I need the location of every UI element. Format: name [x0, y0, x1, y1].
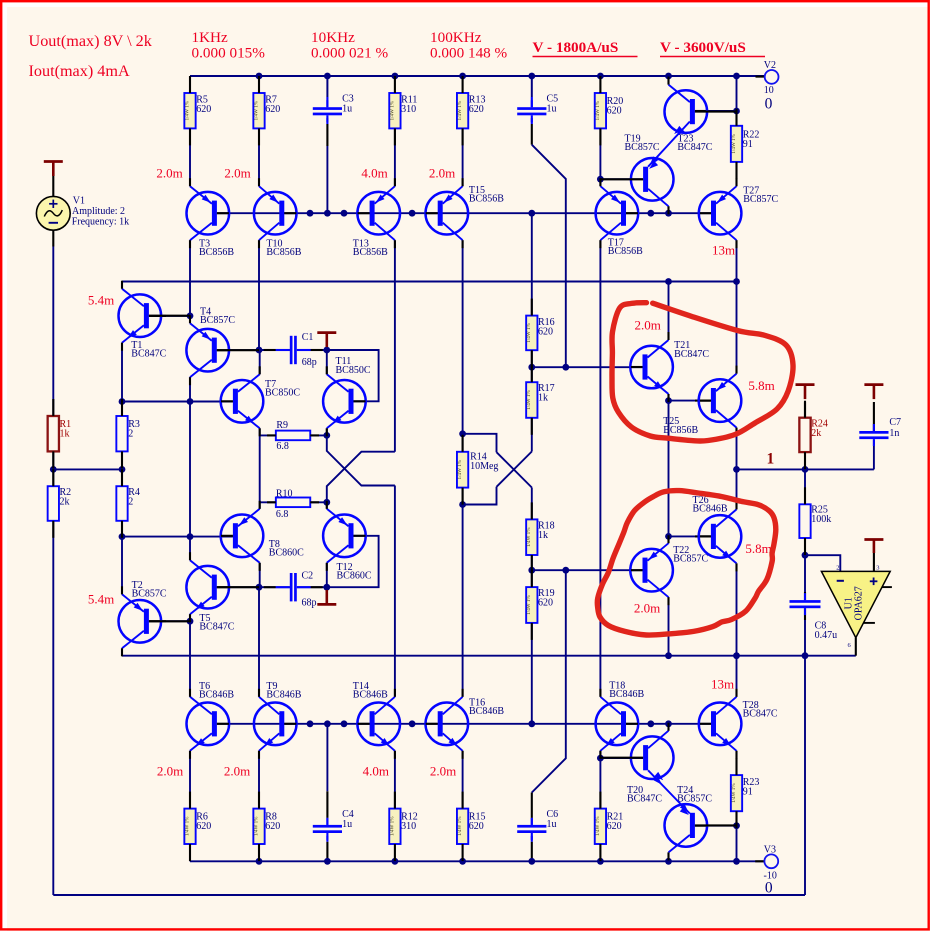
- transistor T12: [323, 515, 366, 558]
- wire V1 to R1: [52, 247, 54, 417]
- wire T8 emitter to R10: [259, 502, 261, 509]
- svg-text:4.0m: 4.0m: [361, 165, 387, 180]
- wire C2 node left: [259, 586, 290, 588]
- wire C8 pins: [804, 555, 806, 592]
- terminal V3: [755, 860, 764, 862]
- svg-text:91: 91: [743, 787, 753, 798]
- capacitor C3: [313, 107, 342, 110]
- wire T12 emitter riser: [326, 502, 328, 509]
- svg-text:1k: 1k: [538, 393, 548, 404]
- resistor R23: [731, 775, 742, 811]
- svg-text:620: 620: [538, 598, 553, 609]
- wire C4 column: [326, 724, 328, 792]
- wire T7 collector riser: [259, 350, 261, 374]
- transistor T25: [699, 379, 742, 422]
- svg-text:310: 310: [401, 104, 416, 115]
- svg-text:0: 0: [765, 879, 773, 896]
- transistor T17: [596, 192, 639, 235]
- wire base rail to R16: [531, 213, 533, 315]
- wire T5 collector riser: [189, 537, 191, 561]
- wire rail y281: [122, 281, 737, 283]
- wire cross X upper: [327, 435, 395, 485]
- wire T12 collector drop: [326, 563, 328, 587]
- svg-text:1/4W 1%: 1/4W 1%: [595, 816, 601, 836]
- svg-text:2.0m: 2.0m: [430, 764, 456, 779]
- marker blob around T22 T26: [597, 491, 776, 636]
- wire T23 base lead ext: [695, 110, 707, 112]
- svg-text:1/4W 1%: 1/4W 1%: [457, 100, 463, 120]
- wire T23-T19 emitter diagonal: [648, 122, 690, 167]
- svg-text:BC857C: BC857C: [200, 315, 235, 326]
- capacitor C1: [290, 336, 293, 364]
- transistor T6: [187, 703, 230, 746]
- svg-text:2: 2: [128, 429, 133, 440]
- svg-text:Uout(max) 8V \ 2k: Uout(max) 8V \ 2k: [29, 32, 153, 50]
- wire cross mid lower diag: [497, 452, 532, 487]
- svg-text:BC856B: BC856B: [353, 247, 388, 258]
- wire F column lower: [394, 486, 396, 697]
- svg-text:0.000 021 %: 0.000 021 %: [311, 45, 389, 62]
- resistor R7: [253, 93, 264, 128]
- wire T11 emitter drop: [326, 428, 328, 435]
- resistor R1: [48, 416, 59, 451]
- wire T7 emitter to R9: [259, 428, 261, 435]
- svg-text:C4: C4: [342, 809, 354, 820]
- wire R19 to bottom base rail: [531, 623, 533, 724]
- transistor T20: [631, 736, 674, 779]
- svg-text:10KHz: 10KHz: [311, 29, 355, 46]
- resistor R12: [389, 809, 400, 844]
- wire node 1: [737, 468, 874, 470]
- svg-text:2.0m: 2.0m: [635, 317, 661, 332]
- svg-text:1/4W 1%: 1/4W 1%: [526, 595, 532, 615]
- wire T28 emitter to R23: [736, 751, 738, 775]
- svg-text:BC846B: BC846B: [353, 690, 388, 701]
- resistor R8: [253, 809, 264, 844]
- wire T22 collector drop: [668, 597, 670, 656]
- svg-text:1/4W 1%: 1/4W 1%: [457, 816, 463, 836]
- svg-text:6.8: 6.8: [276, 509, 289, 520]
- svg-text:10: 10: [764, 85, 774, 96]
- wire cross X lower: [327, 452, 395, 503]
- wire T1 base lead ext: [149, 315, 166, 317]
- ground terminal C2 node: [317, 603, 336, 606]
- transistor T16: [426, 703, 469, 746]
- svg-text:BC856B: BC856B: [469, 194, 504, 205]
- wire T25 base lead: [669, 400, 711, 402]
- wire T21 base feed: [532, 366, 643, 368]
- svg-text:620: 620: [196, 821, 211, 832]
- transistor T8: [221, 515, 264, 558]
- svg-text:V2: V2: [764, 60, 776, 71]
- svg-text:68p: 68p: [302, 357, 317, 368]
- wire R18-R19 node: [531, 555, 533, 570]
- ground terminal R24: [796, 383, 815, 386]
- svg-text:620: 620: [196, 104, 211, 115]
- svg-text:5.8m: 5.8m: [745, 541, 771, 556]
- svg-text:1u: 1u: [547, 104, 557, 115]
- svg-text:BC857C: BC857C: [743, 194, 778, 205]
- svg-text:5.4m: 5.4m: [88, 591, 114, 606]
- resistor R6: [184, 809, 195, 844]
- svg-text:2.0m: 2.0m: [224, 764, 250, 779]
- wire T5 emitter to T2 base junction: [189, 614, 191, 621]
- transistor T10: [254, 192, 297, 235]
- wire top supply rail: [190, 75, 765, 77]
- wire T20-T24 emitter diagonal: [648, 770, 690, 813]
- svg-text:100KHz: 100KHz: [430, 29, 482, 46]
- wire R5-T3 column: [189, 128, 191, 186]
- resistor R2: [48, 486, 59, 521]
- svg-text:BC846B: BC846B: [199, 690, 234, 701]
- svg-text:C7: C7: [889, 417, 901, 428]
- svg-text:1/4W 1%: 1/4W 1%: [526, 390, 532, 410]
- resistor R24: [799, 418, 810, 452]
- wire T8 base feed: [122, 536, 233, 538]
- svg-text:2.0m: 2.0m: [429, 165, 455, 180]
- svg-text:0.000 148 %: 0.000 148 %: [430, 45, 508, 62]
- marker blob around T21 T25: [612, 303, 793, 441]
- resistor R11: [389, 93, 400, 128]
- svg-text:1k: 1k: [538, 530, 548, 541]
- svg-text:Amplitude: 2: Amplitude: 2: [72, 206, 125, 217]
- ground terminal C7: [864, 383, 883, 386]
- transistor T21: [630, 346, 673, 389]
- svg-text:620: 620: [607, 106, 622, 117]
- svg-text:BC856B: BC856B: [663, 425, 698, 436]
- svg-text:BC847C: BC847C: [627, 793, 662, 804]
- svg-text:BC846B: BC846B: [609, 689, 644, 700]
- resistor R10: [276, 498, 310, 508]
- svg-text:BC847C: BC847C: [674, 349, 709, 360]
- resistor R15: [457, 809, 468, 844]
- svg-text:V1: V1: [73, 196, 85, 207]
- wire T1 base junction to T4 emitter: [189, 316, 191, 323]
- svg-text:BC847C: BC847C: [199, 622, 234, 633]
- wire R16-R17 node: [531, 350, 533, 367]
- transistor T22: [630, 549, 673, 592]
- svg-text:1/4W 1%: 1/4W 1%: [253, 816, 259, 836]
- resistor R14: [457, 452, 468, 488]
- wire C7 branch: [873, 440, 875, 469]
- svg-text:BC846B: BC846B: [469, 706, 504, 717]
- wire V2 R22 column: [736, 76, 738, 111]
- capacitor C2: [290, 573, 293, 601]
- wire C2 node right: [297, 586, 327, 588]
- svg-text:2: 2: [836, 565, 839, 572]
- wire R7-T10 column: [258, 128, 260, 186]
- transistor T27: [699, 192, 742, 235]
- svg-text:13m: 13m: [712, 242, 735, 257]
- svg-text:C1: C1: [302, 332, 314, 343]
- wire T11 base loop: [327, 350, 379, 401]
- svg-text:0: 0: [765, 96, 773, 113]
- transistor T4: [186, 329, 229, 372]
- svg-text:1KHz: 1KHz: [192, 29, 229, 46]
- wire T9 collector riser: [258, 587, 260, 697]
- resistor R9: [276, 431, 310, 441]
- wire opamp minus feed: [805, 555, 840, 571]
- wire cross mid upper diag: [497, 452, 532, 487]
- transistor T7: [221, 380, 264, 423]
- svg-text:BC856B: BC856B: [608, 246, 643, 257]
- svg-text:2k: 2k: [811, 428, 821, 439]
- svg-text:620: 620: [469, 821, 484, 832]
- resistor R4: [116, 486, 127, 521]
- svg-text:1u: 1u: [547, 819, 557, 830]
- transistor T23: [665, 90, 708, 133]
- wire R14 down to T16: [462, 505, 464, 697]
- resistor R18: [526, 519, 537, 555]
- svg-text:V - 3600V/uS: V - 3600V/uS: [660, 39, 746, 56]
- wire T4 collector drop: [189, 377, 191, 401]
- svg-text:10Meg: 10Meg: [470, 461, 498, 472]
- capacitor C5: [517, 107, 546, 110]
- svg-text:1/4W 1%: 1/4W 1%: [595, 100, 601, 120]
- svg-text:1/4W 1%: 1/4W 1%: [457, 459, 463, 479]
- wire T22 emitter riser: [668, 536, 670, 543]
- wire T2 collector stub: [121, 648, 123, 655]
- svg-text:0.000 015%: 0.000 015%: [192, 45, 266, 62]
- transistor T13: [357, 192, 400, 235]
- wire C5 to R16R17 node: [531, 118, 533, 124]
- svg-text:1/4W 1%: 1/4W 1%: [184, 100, 190, 120]
- svg-text:BC850C: BC850C: [336, 365, 371, 376]
- ground terminal op-amp plus: [864, 538, 883, 541]
- wire T14-R12 column: [394, 751, 396, 809]
- svg-text:Frequency: 1k: Frequency: 1k: [72, 217, 130, 228]
- wire C1 node right: [297, 349, 327, 351]
- wire T24 base lead ext: [695, 825, 707, 827]
- wire T19 base feed: [600, 178, 643, 180]
- svg-text:1u: 1u: [342, 819, 352, 830]
- svg-text:BC846B: BC846B: [693, 503, 728, 514]
- terminal V2: [756, 76, 765, 78]
- svg-text:91: 91: [743, 139, 753, 150]
- wire T20 base feed: [600, 757, 643, 759]
- svg-text:2.0m: 2.0m: [224, 165, 250, 180]
- wire T13 collector drop: [394, 240, 396, 452]
- svg-text:Iout(max) 4mA: Iout(max) 4mA: [29, 62, 130, 80]
- wire R2 down outer loop: [52, 521, 54, 895]
- resistor R20: [595, 93, 606, 128]
- svg-text:BC847C: BC847C: [743, 709, 778, 720]
- wire C3 column: [326, 76, 328, 97]
- wire rail y655 to op-amp: [122, 655, 856, 657]
- wire opamp output pin: [855, 638, 857, 656]
- wire T11 collector riser: [326, 350, 328, 374]
- wire T5 base lead ext: [217, 586, 229, 588]
- wire C6 to R18R19 node: [531, 818, 533, 825]
- resistor R3: [116, 416, 127, 451]
- wire T23 collector stub: [668, 76, 670, 85]
- wire T26 emitter drop: [736, 563, 738, 696]
- capacitor C8: [790, 600, 821, 603]
- wire T9-R8 column: [258, 751, 260, 809]
- transistor T3: [187, 192, 230, 235]
- wire T4 base lead ext: [217, 349, 229, 351]
- wire R11-T13 column: [394, 128, 396, 186]
- voltage source V1: [44, 160, 63, 163]
- svg-text:1/4W 1%: 1/4W 1%: [731, 133, 737, 153]
- wire C1 node left: [259, 349, 290, 351]
- svg-text:OPA627: OPA627: [854, 586, 865, 620]
- wire T2 base junction down: [189, 621, 191, 697]
- svg-text:1/4W 1%: 1/4W 1%: [389, 100, 395, 120]
- wire T16-R15 column: [462, 751, 464, 809]
- svg-text:1/4W 1%: 1/4W 1%: [526, 527, 532, 547]
- transistor T2: [119, 600, 162, 643]
- svg-text:BC847C: BC847C: [677, 142, 712, 153]
- svg-text:310: 310: [401, 821, 416, 832]
- transistor T9: [254, 703, 297, 746]
- wire T18 emitter to R21: [599, 751, 601, 809]
- wire T25 collector to node1: [736, 428, 738, 510]
- svg-text:4.0m: 4.0m: [363, 764, 389, 779]
- svg-text:620: 620: [265, 104, 280, 115]
- wire R13-T15 column: [462, 128, 464, 186]
- svg-text:2.0m: 2.0m: [156, 165, 182, 180]
- svg-text:1/4W 1%: 1/4W 1%: [731, 783, 737, 803]
- wire T25T26 base column: [668, 401, 670, 537]
- wire T10 collector drop: [258, 240, 260, 350]
- wire R9 to node: [310, 434, 327, 436]
- wire mid column C: [189, 402, 191, 537]
- transistor T18: [596, 703, 639, 746]
- svg-text:BC857C: BC857C: [132, 589, 167, 600]
- svg-text:1/4W 1%: 1/4W 1%: [526, 322, 532, 342]
- wire R24 pins: [804, 402, 806, 418]
- svg-text:6.8: 6.8: [276, 441, 289, 452]
- wire T1 collector stub: [121, 282, 123, 289]
- resistor R19: [526, 587, 537, 623]
- wire T21 emitter to T25 base: [668, 394, 670, 401]
- wire T8 collector drop: [259, 563, 261, 587]
- svg-text:R10: R10: [276, 488, 293, 499]
- svg-text:BC860C: BC860C: [337, 571, 372, 582]
- wire R20 column: [599, 128, 601, 179]
- wire T2 emitter riser: [121, 537, 123, 595]
- capacitor C6: [517, 825, 546, 828]
- wire R14 bottom branch: [463, 487, 497, 505]
- wire T22 base feed: [532, 569, 643, 571]
- resistor R21: [595, 809, 606, 844]
- svg-text:1: 1: [767, 451, 775, 468]
- svg-text:2.0m: 2.0m: [634, 601, 660, 616]
- svg-text:1u: 1u: [342, 104, 352, 115]
- svg-text:BC857C: BC857C: [677, 793, 712, 804]
- svg-text:2.0m: 2.0m: [157, 764, 183, 779]
- wire T1 emitter drop: [121, 343, 123, 402]
- transistor T26: [699, 515, 742, 558]
- transistor T28: [699, 703, 742, 746]
- svg-text:620: 620: [607, 821, 622, 832]
- wire T12 base loop: [327, 536, 379, 587]
- svg-text:100k: 100k: [811, 514, 831, 525]
- wire T2 base lead ext: [149, 620, 166, 622]
- wire R14 top branch: [463, 434, 497, 452]
- resistor R13: [457, 93, 468, 128]
- svg-text:1k: 1k: [60, 429, 70, 440]
- resistor R5: [184, 93, 195, 128]
- wire R14 pins: [462, 434, 464, 452]
- resistor R25: [799, 504, 810, 538]
- svg-text:68p: 68p: [302, 597, 317, 608]
- svg-text:1/4W 1%: 1/4W 1%: [389, 816, 395, 836]
- transistor T11: [323, 380, 366, 423]
- wire R1-R2: [52, 451, 54, 469]
- svg-text:2k: 2k: [60, 496, 70, 507]
- svg-text:1/4W 1%: 1/4W 1%: [253, 100, 259, 120]
- wire R25 pins: [804, 469, 806, 504]
- svg-text:13m: 13m: [711, 677, 734, 692]
- svg-text:BC856B: BC856B: [199, 247, 234, 258]
- svg-text:2: 2: [128, 496, 133, 507]
- svg-text:R9: R9: [276, 420, 288, 431]
- capacitor C4: [313, 825, 342, 828]
- wire R3 link: [121, 402, 123, 417]
- wire T15 collector drop to R14: [462, 240, 464, 434]
- wire T19 collector stub: [668, 206, 670, 213]
- svg-text:C6: C6: [547, 809, 559, 820]
- resistor R16: [526, 316, 537, 351]
- op-amp U1: [821, 571, 890, 637]
- svg-text:5.8m: 5.8m: [748, 378, 774, 393]
- wire T27 collector drop: [736, 240, 738, 373]
- wire T24 collector stub: [668, 852, 670, 861]
- wire C5 top: [531, 76, 533, 97]
- wire left node link y469: [53, 468, 122, 470]
- wire base rail bottom row: [217, 723, 711, 725]
- wire T17 collector long drop: [599, 240, 601, 697]
- wire T7 base feed: [122, 401, 233, 403]
- svg-text:BC857C: BC857C: [673, 553, 708, 564]
- svg-text:BC857C: BC857C: [625, 142, 660, 153]
- junction dots: [256, 73, 263, 80]
- wire opamp plus feed: [873, 553, 875, 571]
- svg-text:620: 620: [265, 821, 280, 832]
- svg-text:1n: 1n: [889, 428, 899, 439]
- wire R10 to node: [310, 501, 327, 503]
- svg-text:BC846B: BC846B: [266, 690, 301, 701]
- svg-text:BC850C: BC850C: [265, 388, 300, 399]
- resistor R22: [731, 126, 742, 162]
- svg-text:5.4m: 5.4m: [88, 292, 114, 307]
- wire R4 link: [121, 469, 123, 486]
- svg-text:V3: V3: [764, 845, 776, 856]
- capacitor C7: [859, 431, 888, 434]
- wire T21 collector riser: [668, 282, 670, 341]
- svg-text:0.47u: 0.47u: [815, 630, 838, 641]
- wire bottom resistor rail: [190, 860, 765, 862]
- transistor T14: [357, 703, 400, 746]
- svg-text:BC847C: BC847C: [131, 349, 166, 360]
- svg-text:BC856B: BC856B: [266, 247, 301, 258]
- svg-text:C2: C2: [302, 571, 314, 582]
- wire T6-R6 column: [189, 751, 191, 809]
- transistor T15: [426, 192, 469, 235]
- svg-text:620: 620: [538, 327, 553, 338]
- svg-text:V - 1800A/uS: V - 1800A/uS: [533, 39, 619, 56]
- transistor T19: [631, 158, 674, 201]
- transistor T24: [665, 804, 708, 847]
- wire R9R10 connector: [259, 435, 261, 502]
- wire T26 base lead: [669, 535, 711, 537]
- svg-text:1/4W 1%: 1/4W 1%: [184, 816, 190, 836]
- ground terminal C1 node: [317, 331, 336, 334]
- wire T20 collector stub: [668, 724, 670, 731]
- svg-text:3: 3: [876, 565, 879, 572]
